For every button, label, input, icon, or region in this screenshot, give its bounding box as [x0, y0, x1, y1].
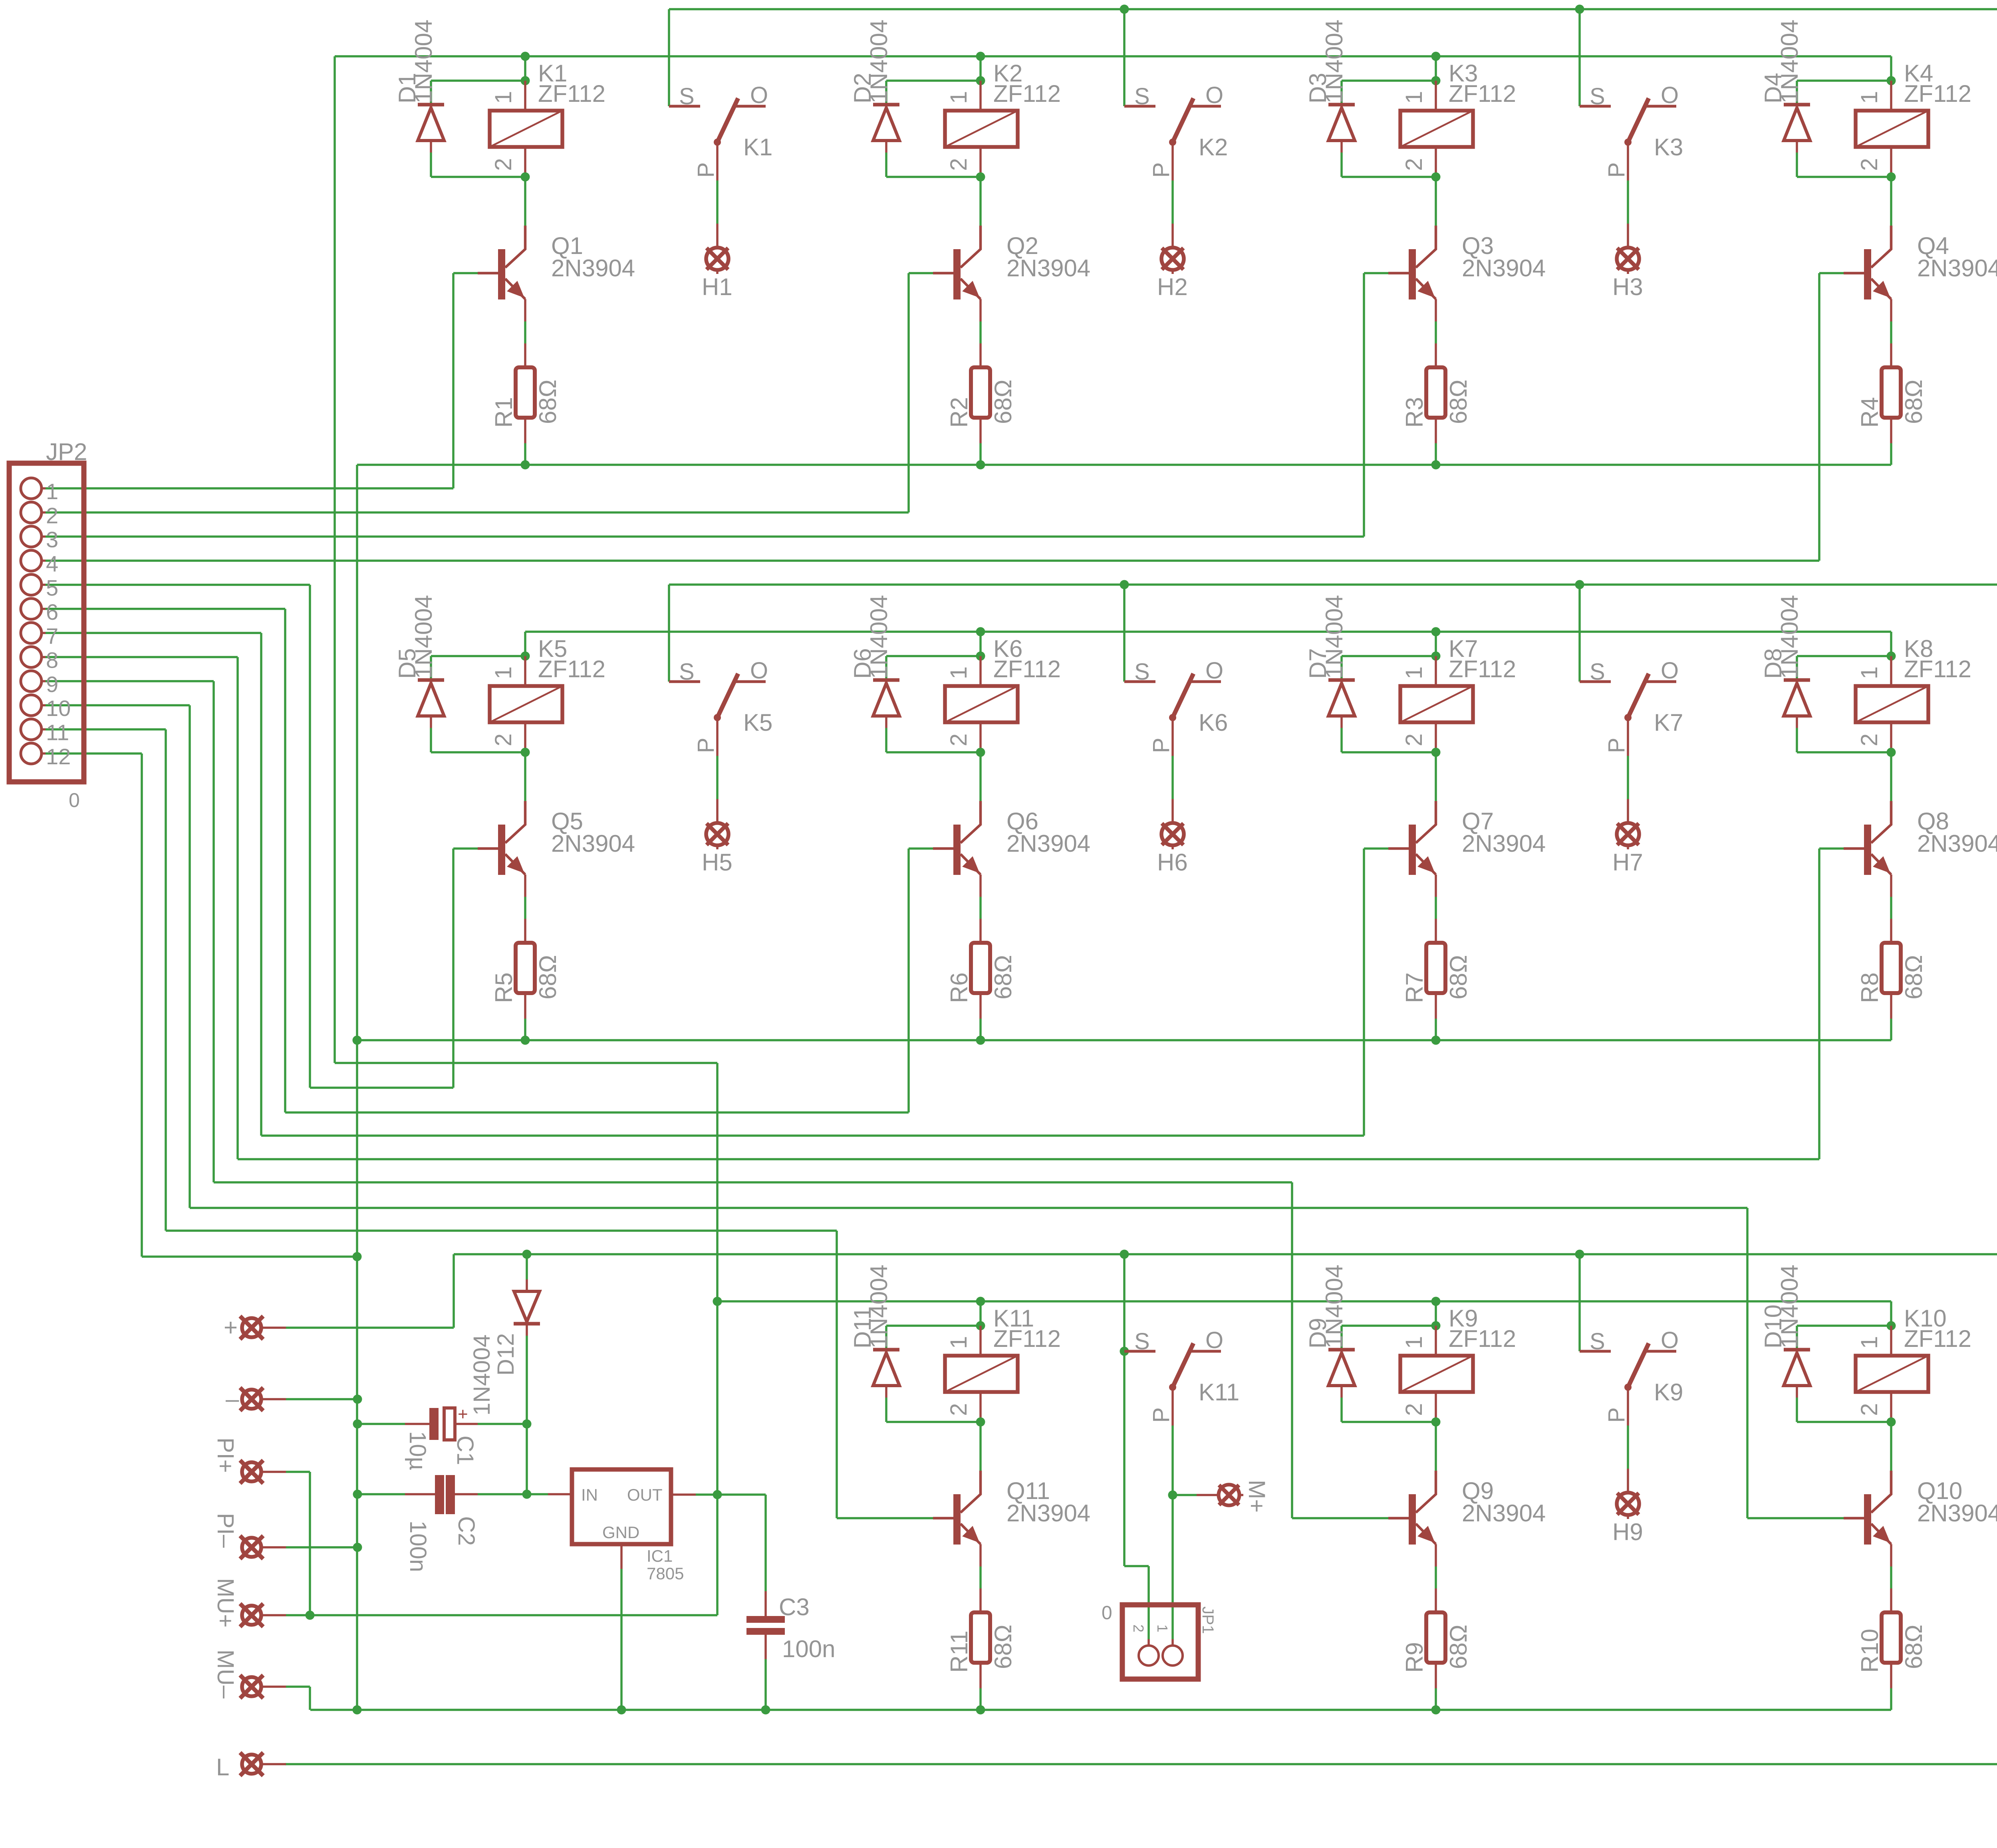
svg-text:L: L: [216, 1754, 229, 1781]
lamp H5: [716, 799, 719, 823]
svg-text:1N4004: 1N4004: [865, 595, 892, 679]
svg-text:R10: R10: [1856, 1629, 1883, 1673]
wire coil feed K6: [979, 632, 982, 656]
svg-text:68Ω: 68Ω: [990, 955, 1016, 999]
svg-text:O: O: [750, 82, 768, 108]
junction coil rail K1: [521, 52, 530, 61]
junction C1 / D12 net: [522, 1420, 532, 1429]
diode D8 (1N4004): [1796, 656, 1798, 680]
svg-text:68Ω: 68Ω: [990, 379, 1016, 424]
svg-text:IC1: IC1: [647, 1547, 673, 1565]
wire D6 to K6 pin2: [886, 751, 981, 753]
svg-text:PI–: PI–: [212, 1513, 238, 1548]
junction node pin1 K7: [1431, 652, 1441, 661]
svg-text:9: 9: [46, 672, 58, 697]
svg-text:2N3904: 2N3904: [1006, 255, 1090, 282]
svg-text:O: O: [1205, 658, 1223, 684]
relay contact K3 pin S: [1580, 105, 1611, 108]
svg-text:R9: R9: [1401, 1642, 1428, 1673]
svg-text:1: 1: [946, 1336, 972, 1349]
junction node pin2 K5: [521, 748, 530, 757]
svg-text:GND: GND: [602, 1523, 639, 1542]
wire Q6 emitter to R6: [979, 897, 982, 919]
wire base Q10: [1747, 1517, 1844, 1519]
svg-text:100n: 100n: [782, 1636, 835, 1662]
svg-text:JP2: JP2: [46, 438, 87, 465]
svg-text:H1: H1: [702, 274, 732, 300]
svg-text:1N4004: 1N4004: [469, 1334, 495, 1416]
svg-text:H2: H2: [1157, 274, 1188, 300]
svg-text:2N3904: 2N3904: [1917, 255, 1997, 282]
capacitor C3 (100n): [764, 1591, 767, 1616]
wire K5 pin2 to Q5 collector: [524, 752, 526, 801]
svg-text:ZF112: ZF112: [1449, 80, 1516, 107]
svg-text:R2: R2: [946, 397, 973, 428]
relay contact K9 pin S: [1580, 1350, 1611, 1353]
diode D12 (1N4004): [526, 1254, 528, 1279]
wire GND rail bottom: [310, 1709, 1891, 1711]
junction lamp rail K2: [1120, 5, 1129, 14]
junction PI+ MU+: [306, 1611, 315, 1620]
wire lamp rail L row2: [669, 583, 1997, 586]
svg-text:C1: C1: [452, 1436, 478, 1465]
relay contact K7 pin O: [1645, 680, 1676, 683]
wire P of K11: [1171, 1426, 1174, 1469]
wire base Q4: [1819, 272, 1844, 274]
junction +5V at 7805 OUT: [713, 1490, 722, 1499]
wire PI+ to +5 line: [286, 1471, 310, 1473]
resistor R8 (68Ω): [1890, 919, 1892, 943]
junction - GND: [353, 1395, 362, 1404]
voltage regulator IC1 7805: [527, 1493, 548, 1495]
resistor R11 (68Ω): [979, 1588, 982, 1612]
svg-text:S: S: [1590, 83, 1605, 109]
svg-text:1: 1: [490, 666, 516, 679]
svg-text:2: 2: [1401, 1403, 1427, 1416]
svg-text:1: 1: [1401, 91, 1427, 104]
wire JP2 pin 5 to Q5 base: [46, 584, 310, 586]
contact pivot K7: [1624, 714, 1632, 721]
relay contact K11 pin O: [1190, 1350, 1221, 1353]
svg-text:10µ: 10µ: [405, 1431, 431, 1470]
svg-text:M+: M+: [1244, 1480, 1270, 1513]
svg-text:P: P: [1604, 738, 1630, 753]
svg-text:H5: H5: [702, 849, 732, 876]
diode D4 (1N4004): [1796, 81, 1798, 105]
wire D10 to K10 pin1: [1797, 1325, 1891, 1327]
svg-text:2: 2: [1856, 734, 1882, 746]
wire R5 to emitter rail: [524, 1019, 526, 1040]
wire base Q7: [1364, 847, 1388, 850]
svg-text:68Ω: 68Ω: [534, 379, 561, 424]
junction emitter rail R6: [976, 1036, 985, 1045]
junction node pin2 K4: [1887, 173, 1896, 182]
svg-text:1: 1: [1856, 1336, 1882, 1349]
svg-text:P: P: [1604, 162, 1630, 178]
junction emitter rail R2: [976, 460, 985, 470]
junction emitter rail R7: [1431, 1036, 1441, 1045]
diode D6 (1N4004): [885, 656, 887, 680]
wire D2 to K2 pin1: [886, 79, 981, 82]
diode D9 (1N4004): [1340, 1326, 1343, 1350]
relay contact K3 pin O: [1645, 105, 1676, 108]
svg-text:3: 3: [46, 527, 58, 552]
junction C2 left GND: [353, 1490, 362, 1499]
relay contact K1 pin S: [669, 105, 700, 108]
wire JP2 pin 10 to Q10 base: [46, 704, 190, 706]
terminal PI+: [242, 1462, 261, 1481]
wire D1 to K1 pin2: [431, 176, 525, 178]
relay contact K5 pin S: [669, 680, 700, 683]
wire +5V left riser: [333, 56, 336, 1063]
connector JP1: [1122, 1605, 1198, 1679]
relay contact K11 pin S: [1124, 1350, 1155, 1353]
resistor R2 (68Ω): [979, 343, 982, 367]
svg-text:IN: IN: [581, 1485, 598, 1504]
wire coil feed K11: [979, 1301, 982, 1326]
contact blade K7: [1628, 674, 1649, 718]
relay coil K1 (ZF112): [524, 81, 526, 111]
wire JP2 pin 1 to Q1 base: [46, 487, 453, 490]
wire Q9 emitter to R9: [1435, 1566, 1437, 1588]
wire D11 to K11 pin1: [886, 1325, 981, 1327]
wire D8 to K8 pin2: [1797, 751, 1891, 753]
svg-text:2: 2: [1130, 1624, 1147, 1632]
svg-text:1N4004: 1N4004: [410, 595, 437, 679]
lamp H9: [1627, 1469, 1629, 1493]
svg-text:68Ω: 68Ω: [990, 1624, 1016, 1669]
svg-text:–: –: [226, 1386, 239, 1412]
diode D2 (1N4004): [885, 81, 887, 105]
wire base Q9: [1292, 1517, 1388, 1519]
junction node pin1 K6: [976, 652, 985, 661]
wire JP2 pin 8 to Q8 base: [46, 656, 238, 658]
svg-text:K6: K6: [1199, 709, 1228, 736]
svg-text:68Ω: 68Ω: [1900, 379, 1927, 424]
svg-text:8: 8: [46, 648, 58, 673]
relay contact K7 pin S: [1580, 680, 1611, 683]
pin 10 JP2: [21, 695, 42, 716]
junction +12 rail K11: [1120, 1250, 1129, 1259]
wire K8 pin2 to Q8 collector: [1890, 752, 1892, 801]
wire D5 to K5 pin1: [431, 655, 525, 657]
svg-text:1N4004: 1N4004: [1321, 20, 1348, 103]
svg-text:PI+: PI+: [212, 1438, 238, 1473]
junction JP2 pin12 GND: [353, 1252, 362, 1261]
junction node pin1 K8: [1887, 652, 1896, 661]
svg-text:K5: K5: [743, 709, 772, 736]
junction node pin2 K11: [976, 1418, 985, 1427]
relay contact K6 pin O: [1190, 680, 1221, 683]
wire D9 to K9 pin1: [1342, 1325, 1436, 1327]
transistor Q9 (2N3904): [1409, 1494, 1416, 1545]
contact pivot K1: [714, 139, 721, 146]
transistor Q2 (2N3904): [953, 249, 961, 299]
relay coil K10 (ZF112): [1890, 1326, 1892, 1356]
contact pivot K2: [1169, 139, 1176, 146]
junction coil rail K3: [1431, 52, 1441, 61]
svg-text:S: S: [1134, 659, 1150, 685]
wire Q4 emitter to R4: [1890, 321, 1892, 343]
wire MU- to GND rail: [286, 1685, 310, 1688]
svg-text:H6: H6: [1157, 849, 1188, 876]
svg-text:68Ω: 68Ω: [1900, 955, 1927, 999]
wire K10 pin2 to Q10 collector: [1890, 1422, 1892, 1471]
junction node pin2 K3: [1431, 173, 1441, 182]
wire +5V riser x1796: [716, 1063, 719, 1615]
svg-text:2: 2: [490, 734, 516, 746]
svg-text:1N4004: 1N4004: [1321, 1265, 1348, 1348]
wire D5 to K5 pin2: [431, 751, 525, 753]
junction S pin K11: [1120, 1347, 1129, 1356]
wire +5V rail row1 (coil supply): [335, 55, 1891, 58]
wire D2 to K2 pin2: [886, 176, 981, 178]
wire lamp rail L row1: [669, 8, 1997, 10]
svg-text:H9: H9: [1612, 1519, 1643, 1545]
wire +5V rail row2 (coil supply): [525, 631, 1891, 633]
junction node pin1 K5: [521, 652, 530, 661]
wire P of K5: [716, 756, 719, 799]
svg-text:P: P: [1604, 1407, 1630, 1423]
svg-text:ZF112: ZF112: [993, 1325, 1061, 1352]
svg-text:ZF112: ZF112: [1904, 656, 1971, 682]
wire D11 to K11 pin2: [886, 1421, 981, 1423]
wire base Q11: [837, 1517, 933, 1519]
contact blade K3: [1628, 98, 1649, 142]
svg-text:1: 1: [1401, 666, 1427, 679]
svg-text:P: P: [1148, 162, 1174, 178]
svg-text:K2: K2: [1199, 134, 1228, 161]
wire R9 to emitter rail: [1435, 1688, 1437, 1710]
svg-text:P: P: [693, 162, 719, 178]
wire + to +12 rail: [286, 1327, 454, 1329]
junction emitter rail R5: [521, 1036, 530, 1045]
pin GND IC1: [620, 1544, 623, 1569]
svg-text:2: 2: [946, 1403, 972, 1416]
wire P of K2: [1171, 180, 1174, 224]
relay contact K6 pin S: [1124, 680, 1155, 683]
junction D12 +12: [522, 1250, 532, 1259]
svg-text:K7: K7: [1654, 709, 1683, 736]
svg-text:2N3904: 2N3904: [1462, 830, 1546, 857]
terminal MU-: [242, 1677, 261, 1696]
svg-text:2N3904: 2N3904: [1006, 830, 1090, 857]
svg-text:1N4004: 1N4004: [410, 20, 437, 103]
svg-text:1: 1: [1154, 1624, 1171, 1632]
pin OUT IC1: [671, 1493, 696, 1496]
wire +5V mid link: [335, 1062, 717, 1064]
contact blade K1: [717, 98, 738, 142]
relay contact K6 pin P: [1171, 718, 1174, 756]
svg-text:ZF112: ZF112: [1449, 656, 1516, 682]
wire R2 to emitter rail: [979, 443, 982, 465]
svg-text:MU+: MU+: [212, 1578, 238, 1628]
svg-text:O: O: [1205, 1327, 1223, 1353]
resistor R7 (68Ω): [1435, 919, 1437, 943]
svg-text:2N3904: 2N3904: [1462, 1500, 1546, 1527]
wire S feed K7: [1578, 585, 1581, 682]
wire Q11 emitter to R11: [979, 1566, 982, 1588]
svg-text:6: 6: [46, 599, 58, 625]
junction emitter rail R1: [521, 460, 530, 470]
pin 11 JP2: [21, 719, 42, 740]
resistor R9 (68Ω): [1435, 1588, 1437, 1612]
contact pivot K11: [1169, 1384, 1176, 1391]
relay contact K2 pin O: [1190, 105, 1221, 108]
wire D4 to K4 pin2: [1797, 176, 1891, 178]
junction GND rail R11: [976, 1705, 985, 1715]
relay coil K5 (ZF112): [524, 656, 526, 686]
wire coil feed K10: [1890, 1301, 1892, 1326]
wire Q1 emitter to R1: [524, 321, 526, 343]
svg-text:O: O: [750, 658, 768, 684]
svg-text:K1: K1: [743, 134, 772, 161]
wire D10 to K10 pin2: [1797, 1421, 1891, 1423]
wire D3 to K3 pin1: [1342, 79, 1436, 82]
svg-text:O: O: [1661, 82, 1679, 108]
transistor Q10 (2N3904): [1864, 1494, 1871, 1545]
wire K7 pin2 to Q7 collector: [1435, 752, 1437, 801]
svg-text:7: 7: [46, 623, 58, 648]
svg-text:2N3904: 2N3904: [1462, 255, 1546, 282]
wire coil feed K1: [524, 56, 526, 81]
wire K11 P to JP1 pin1: [1171, 1469, 1174, 1639]
junction GND bus row2 rail: [353, 1036, 362, 1045]
wire JP2 pin 6 to Q6 base: [46, 608, 285, 610]
junction C2 right / IN: [522, 1490, 532, 1499]
svg-text:K11: K11: [1199, 1379, 1239, 1406]
wire +5V rail row3 (coil supply): [717, 1300, 1891, 1303]
wire S feed K3: [1578, 9, 1581, 106]
svg-text:11: 11: [46, 720, 69, 745]
wire D8 to K8 pin1: [1797, 655, 1891, 657]
wire base Q5: [453, 847, 478, 850]
svg-text:2: 2: [46, 503, 58, 528]
relay contact K11 pin P: [1171, 1387, 1174, 1426]
wire K6 pin2 to Q6 collector: [979, 752, 982, 801]
pin 2 JP2: [21, 502, 42, 523]
wire emitter rail row1: [357, 464, 1891, 466]
svg-text:68Ω: 68Ω: [534, 955, 561, 999]
wire base Q2: [909, 272, 933, 274]
junction +5V rail row3: [713, 1297, 722, 1306]
svg-text:1: 1: [946, 91, 972, 104]
diode D10 (1N4004): [1796, 1326, 1798, 1350]
wire coil feed K2: [979, 56, 982, 81]
wire S feed K6: [1123, 585, 1126, 682]
pin 8 JP2: [21, 647, 42, 668]
svg-text:S: S: [679, 83, 695, 109]
capacitor C1 (10u electrolytic): [357, 1423, 405, 1425]
wire K3 pin2 to Q3 collector: [1435, 177, 1437, 226]
svg-text:1: 1: [1856, 666, 1882, 679]
relay contact K7 pin P: [1627, 718, 1629, 756]
contact blade K6: [1173, 674, 1193, 718]
wire base Q1: [453, 272, 478, 274]
wire PI- to GND bus: [286, 1546, 357, 1549]
wire K9 pin2 to Q9 collector: [1435, 1422, 1437, 1471]
svg-text:7805: 7805: [647, 1564, 684, 1583]
junction node pin1 K4: [1887, 76, 1896, 85]
svg-text:P: P: [1148, 738, 1174, 753]
relay coil K7 (ZF112): [1435, 656, 1437, 686]
svg-text:1N4004: 1N4004: [1776, 595, 1803, 679]
svg-text:R5: R5: [490, 972, 517, 1003]
svg-text:MU–: MU–: [212, 1650, 238, 1699]
svg-text:OUT: OUT: [627, 1485, 663, 1504]
pin 12 JP2: [21, 743, 42, 764]
wire D6 to K6 pin1: [886, 655, 981, 657]
transistor Q3 (2N3904): [1409, 249, 1416, 299]
wire Q8 emitter to R8: [1890, 897, 1892, 919]
wire R6 to emitter rail: [979, 1019, 982, 1040]
relay contact K9 pin O: [1645, 1350, 1676, 1353]
wire S feed K5: [668, 585, 670, 682]
wire P of K3: [1627, 180, 1629, 224]
relay contact K3 pin P: [1627, 142, 1629, 180]
transistor Q8 (2N3904): [1864, 825, 1871, 875]
relay contact K1 pin O: [734, 105, 766, 108]
junction node pin2 K9: [1431, 1418, 1441, 1427]
wire R7 to emitter rail: [1435, 1019, 1437, 1040]
wire R11 to emitter rail: [979, 1688, 982, 1710]
pin 1 JP1: [1163, 1646, 1183, 1666]
svg-text:2: 2: [490, 158, 516, 171]
svg-text:H7: H7: [1612, 849, 1643, 876]
diode D7 (1N4004): [1340, 656, 1343, 680]
junction node pin2 K8: [1887, 748, 1896, 757]
junction C3 GND rail: [761, 1705, 770, 1715]
diode D5 (1N4004): [430, 656, 432, 680]
wire P of K7: [1627, 756, 1629, 799]
diode D11 (1N4004): [885, 1326, 887, 1350]
svg-text:0: 0: [69, 789, 80, 811]
relay coil K11 (ZF112): [979, 1326, 982, 1356]
lamp H3: [1627, 224, 1629, 248]
svg-text:1N4004: 1N4004: [1321, 595, 1348, 679]
junction node pin2 K7: [1431, 748, 1441, 757]
wire S feed K11 / JP1 pin2: [1123, 1254, 1126, 1566]
contact pivot K5: [714, 714, 721, 721]
svg-text:S: S: [1134, 1328, 1150, 1354]
wire K11 pin2 to Q11 collector: [979, 1422, 982, 1471]
wire base Q3: [1364, 272, 1388, 274]
svg-text:S: S: [1590, 1328, 1605, 1354]
svg-text:O: O: [1661, 1327, 1679, 1353]
wire GND bus left: [356, 465, 358, 1710]
wire P of K6: [1171, 756, 1174, 799]
lamp M+: [1173, 1494, 1197, 1496]
contact pivot K6: [1169, 714, 1176, 721]
wire Q3 emitter to R3: [1435, 321, 1437, 343]
svg-text:5: 5: [46, 575, 58, 600]
junction lamp rail K6: [1120, 580, 1129, 589]
svg-text:S: S: [679, 659, 695, 685]
resistor R4 (68Ω): [1890, 343, 1892, 367]
svg-text:2N3904: 2N3904: [1006, 1500, 1090, 1527]
svg-text:ZF112: ZF112: [1449, 1325, 1516, 1352]
wire Q7 emitter to R7: [1435, 897, 1437, 919]
pin 4 JP2: [21, 550, 42, 571]
svg-text:ZF112: ZF112: [993, 80, 1061, 107]
relay coil K6 (ZF112): [979, 656, 982, 686]
diode D1 (1N4004): [430, 81, 432, 105]
terminal L: [242, 1755, 261, 1774]
relay contact K5 pin O: [734, 680, 766, 683]
junction GND rail R9: [1431, 1705, 1441, 1715]
svg-text:1: 1: [46, 479, 58, 504]
resistor R3 (68Ω): [1435, 343, 1437, 367]
